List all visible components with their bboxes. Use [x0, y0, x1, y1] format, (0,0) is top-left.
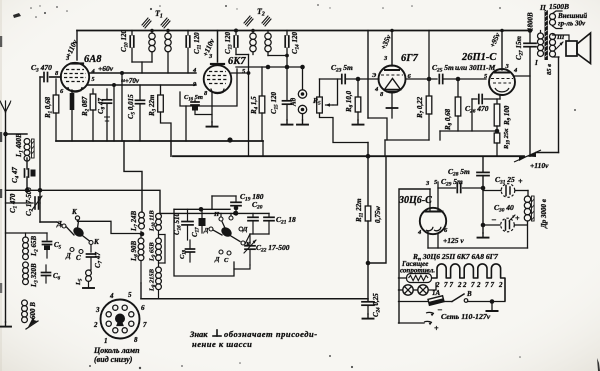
- tuning arrow: [265, 19, 271, 26]
- scan artifacts top-left: [13, 13, 21, 18]
- wire x=248 link: [248, 55, 250, 142]
- wire secondary to speaker: [553, 35, 570, 41]
- svg-text:1: 1: [104, 337, 108, 345]
- capacitor C24 0.25: [362, 301, 374, 303]
- tube 6G7: [379, 66, 406, 93]
- wire x=248 lower link: [248, 141, 250, 156]
- antenna: [5, 112, 7, 134]
- svg-text:+: +: [434, 324, 439, 333]
- potentiometer R5: [319, 79, 321, 97]
- svg-text:30Ц6-С: 30Ц6-С: [398, 195, 432, 206]
- ground jack: [302, 120, 304, 124]
- svg-text:5: 5: [128, 291, 132, 299]
- wire box right of 6K7: [180, 69, 237, 106]
- coil L8 215V: [156, 267, 162, 273]
- svg-text:обозначает присоеди-: обозначает присоеди-: [224, 329, 318, 339]
- wire PSU box left: [399, 189, 430, 323]
- 6G7 diode triangle: [385, 79, 401, 90]
- speaker: [566, 41, 577, 56]
- svg-text:+110v: +110v: [530, 161, 549, 170]
- wire mains bottom: [399, 322, 425, 324]
- wire L10 top elbow: [6, 190, 161, 213]
- svg-text:Н: Н: [213, 211, 220, 218]
- coil L7 24V: [139, 212, 145, 218]
- wire anode 5: [437, 182, 439, 211]
- switch2 contact D left: [209, 227, 213, 231]
- wire C22 to switch K: [245, 234, 250, 244]
- 26P1 grid dashes: [491, 78, 513, 80]
- wire C19 top: [212, 195, 236, 197]
- wire L7 top elbow: [124, 141, 142, 212]
- svg-text:Д: Д: [65, 252, 71, 260]
- 6G7 grid dashes: [381, 74, 403, 76]
- capacitor C5 0.015: [139, 85, 141, 100]
- wire 6G7 cathode down: [391, 93, 393, 109]
- wire R5 bottom drop: [320, 113, 369, 143]
- svg-text:1800В: 1800В: [527, 12, 535, 31]
- wire left coil column: [140, 231, 142, 238]
- tube socket diagram: [101, 300, 140, 339]
- svg-text:нение к шасси: нение к шасси: [192, 339, 252, 349]
- wire from AVC x=40 to contact D: [57, 222, 62, 225]
- wire 6K7 top feed: [217, 31, 219, 63]
- tuning arrow: [247, 19, 253, 26]
- svg-text:Др 3000 в: Др 3000 в: [540, 199, 548, 229]
- wire plate to IF2: [232, 72, 249, 74]
- svg-text:+60v: +60v: [98, 64, 114, 73]
- tube 30Ts6: [420, 208, 446, 234]
- resistor R6 10.0: [357, 79, 359, 97]
- coil IF1 primary: [151, 31, 153, 34]
- variable cap C2: [6, 202, 34, 204]
- junction rail: [227, 137, 232, 142]
- wire osc rail y=209: [174, 208, 230, 210]
- band switch 1 rotor: [72, 225, 86, 238]
- wire switch1 to coils: [78, 220, 141, 234]
- capacitor C19 180: [235, 196, 237, 201]
- wire rail y=153 right of switch: [536, 152, 559, 154]
- junction: [38, 188, 43, 193]
- coil L4 600V: [22, 300, 28, 306]
- coil L5: [86, 270, 92, 276]
- capacitor C17 trimmer: [201, 209, 203, 218]
- junction antenna node: [3, 132, 8, 137]
- svg-text:гр-ль 30v: гр-ль 30v: [558, 20, 586, 28]
- wire choke down: [527, 221, 529, 248]
- bowtie +110v switch: [519, 152, 536, 161]
- junction: [199, 207, 204, 212]
- svg-text:2: 2: [93, 321, 98, 329]
- capacitor C5 padder: [46, 233, 48, 240]
- wire rail link x=171: [170, 141, 172, 156]
- svg-text:Знак: Знак: [189, 329, 208, 339]
- wire switch to ladder: [468, 301, 505, 303]
- wire 6G7 plate feed: [391, 31, 393, 67]
- heater filament ladder: [432, 264, 506, 301]
- wire x=429 drop: [428, 31, 430, 97]
- svg-text:–: –: [491, 215, 496, 224]
- svg-text:Д: Д: [203, 227, 209, 234]
- wire IF1 plate link: [132, 61, 152, 63]
- scan specks bottom: [89, 365, 91, 367]
- svg-text:7: 7: [485, 281, 489, 289]
- secondary tap arrow: [556, 42, 563, 49]
- wire choke top stub: [527, 191, 529, 197]
- svg-text:1500В: 1500В: [549, 2, 569, 11]
- wire R7 bottom rail y=140: [385, 139, 429, 141]
- junction: [481, 223, 486, 228]
- switch2 contacts bottom: [219, 250, 223, 254]
- ground filter: [482, 233, 484, 237]
- capacitor C21 18: [268, 213, 270, 216]
- resistor R1 0.68: [55, 79, 57, 95]
- svg-text:I: I: [534, 59, 538, 67]
- junction grid R6: [356, 77, 361, 82]
- wire cathode rail y=248: [428, 247, 528, 249]
- capacitor C15 120: [286, 67, 288, 101]
- ground L5: [88, 282, 90, 288]
- choke Dr 3000V: [524, 196, 530, 202]
- wire antenna to L1: [6, 133, 28, 135]
- core arrow: [28, 317, 37, 327]
- tuning arrow: [145, 21, 151, 28]
- junction: [300, 65, 305, 70]
- wire mid rail y=141: [56, 140, 263, 142]
- coil L9 65V: [156, 238, 162, 244]
- svg-text:2: 2: [457, 281, 462, 289]
- wire right coil column: [158, 231, 160, 238]
- 6G7 plate bar: [385, 69, 399, 71]
- resistor R9 100: [496, 99, 498, 104]
- capacitor C25 5t: [406, 78, 438, 80]
- capacitor C14 120: [286, 31, 288, 36]
- switch2 contact C: [229, 216, 233, 220]
- 26P1 plate bar: [495, 72, 509, 74]
- capacitor C13 120: [235, 31, 237, 36]
- wire wiper to grid cap: [333, 79, 338, 105]
- switch contact K right: [89, 241, 93, 245]
- coil IF2 secondary: [267, 31, 269, 34]
- switch contact D left: [62, 224, 66, 228]
- transformer ext winding: [550, 14, 556, 20]
- tube 6A8: [61, 63, 89, 91]
- svg-text:26П1-С: 26П1-С: [461, 52, 497, 63]
- wire screen rail y=73: [90, 72, 197, 74]
- junction: [366, 261, 371, 266]
- wire grid stub: [50, 76, 61, 78]
- svg-text:(вид снизу): (вид снизу): [94, 355, 133, 364]
- capacitor C3 470: [40, 76, 43, 78]
- switch contact K top: [75, 216, 79, 220]
- wire rail y=131: [440, 130, 497, 132]
- transformer secondary coil: [550, 34, 556, 40]
- 6G7 cathode bar: [387, 91, 397, 93]
- svg-text:7: 7: [143, 321, 147, 329]
- wire jack leads: [302, 67, 304, 90]
- capacitor C18: [186, 248, 195, 250]
- ground mains: [491, 302, 493, 311]
- junction: [266, 65, 271, 70]
- wire C19 drop: [211, 196, 213, 209]
- capacitor C26 470: [472, 98, 477, 100]
- junction B+ top: [528, 28, 533, 33]
- jack pickup top: [298, 90, 306, 98]
- wiper R5: [326, 104, 334, 106]
- capacitor C7 47: [87, 253, 96, 255]
- switch V: [444, 301, 452, 303]
- svg-text:2: 2: [476, 281, 481, 289]
- capacitor C16 510: [187, 209, 189, 221]
- wire pin4 to B+: [514, 75, 531, 77]
- svg-text:85 в: 85 в: [546, 64, 553, 75]
- resistor R11 22t: [365, 206, 371, 221]
- wire anode 3: [429, 189, 431, 211]
- plug squiggles: [426, 312, 434, 313]
- svg-text:6: 6: [141, 304, 145, 312]
- wire 6K7 cathode: [211, 93, 213, 122]
- wire speaker return: [558, 57, 560, 153]
- capacitor C27 15t: [529, 31, 531, 43]
- wire c22 bottom link: [234, 265, 250, 269]
- wire x=186 drop: [185, 106, 187, 141]
- ground C24: [367, 314, 369, 318]
- junction grid2: [456, 77, 461, 82]
- wire L1 to C4: [26, 158, 28, 169]
- svg-text:С: С: [224, 257, 229, 264]
- resistor R3 22t: [160, 85, 162, 95]
- svg-text:+125 v: +125 v: [443, 236, 464, 245]
- wire C26 left down: [471, 99, 473, 131]
- capacitor C11 120: [187, 31, 189, 36]
- wire C20 C21 bottoms: [250, 233, 269, 235]
- svg-text:или 30П1-М: или 30П1-М: [455, 63, 496, 72]
- capacitor C23 5t: [341, 75, 343, 84]
- resistor R7 0.22: [426, 96, 432, 114]
- wire x=386 drop to C24 node: [368, 156, 386, 263]
- svg-text:4: 4: [109, 292, 114, 300]
- tube 26P1: [489, 69, 515, 95]
- 26P1 cathode arc: [495, 88, 509, 92]
- wire osc top rail: [6, 232, 48, 234]
- wire x=368 drop: [367, 143, 369, 207]
- ground R6: [357, 120, 359, 124]
- coil L2 65V: [25, 233, 27, 237]
- capacitor C10 120: [131, 31, 133, 36]
- svg-text:С: С: [76, 254, 81, 262]
- junction R10 rail: [495, 129, 500, 134]
- wire C4 to node: [26, 177, 28, 190]
- jack pickup bottom: [298, 105, 306, 113]
- wire AVC vertical x=40: [39, 77, 41, 222]
- wire antenna down-lead: [5, 134, 7, 322]
- svg-text:7: 7: [444, 281, 448, 289]
- dial lamp 2: [418, 285, 428, 295]
- coil L3 320V: [23, 262, 29, 268]
- transformer primary coil: [540, 31, 542, 34]
- switch contacts D S bottom: [70, 248, 74, 252]
- variable cap C22 17-500: [249, 234, 251, 244]
- svg-text:600 В: 600 В: [29, 302, 37, 319]
- svg-text:+: +: [515, 214, 520, 223]
- resistor R4 1.5: [261, 67, 263, 96]
- anode bars: [426, 211, 434, 213]
- wire osc link y=213: [160, 212, 269, 214]
- band switch 2 rotor: [220, 225, 234, 238]
- tuning arrow: [164, 21, 170, 28]
- switch2 contact D right: [239, 227, 243, 231]
- junction: [140, 232, 145, 237]
- capacitor C31 25 electrolytic: [483, 190, 501, 192]
- fuse: [399, 301, 429, 303]
- svg-text:Сеть 110-127v: Сеть 110-127v: [441, 312, 491, 321]
- svg-text:7: 7: [471, 281, 475, 289]
- wire ballast left: [399, 277, 407, 279]
- svg-text:Д: Д: [214, 256, 220, 263]
- wire cathode legs: [427, 232, 429, 249]
- resistor R2 0.87: [92, 89, 94, 94]
- junction: [481, 186, 486, 191]
- wire coil bottoms: [140, 283, 142, 299]
- svg-text:В: В: [466, 290, 472, 298]
- svg-text:7: 7: [450, 281, 454, 289]
- resistor R8 0.68: [457, 79, 459, 97]
- capacitor C28 5t: [477, 171, 489, 173]
- capacitor C6: [42, 272, 51, 274]
- svg-text:+: +: [518, 177, 523, 186]
- svg-text:3: 3: [95, 306, 100, 314]
- svg-text:6Г7: 6Г7: [401, 53, 419, 64]
- dial lamp 1: [403, 285, 413, 295]
- capacitor C16 trimmer: [194, 100, 196, 102]
- wire grid line y=79: [320, 78, 342, 80]
- svg-text:2: 2: [462, 281, 467, 289]
- switch2 contact K: [241, 241, 245, 245]
- svg-text:Д: Д: [242, 226, 248, 233]
- capacitor C29 5t: [438, 187, 456, 189]
- coil IF1 secondary: [167, 31, 169, 34]
- svg-text:2: 2: [498, 281, 503, 289]
- coil L10 11V: [156, 213, 162, 219]
- wire coil taps: [159, 234, 166, 236]
- wire audio rail y=299: [141, 298, 368, 300]
- cathode hooks: [426, 227, 433, 231]
- svg-text:1А: 1А: [432, 289, 441, 297]
- switch2 contact N: [219, 217, 223, 221]
- capacitor C20: [252, 213, 254, 216]
- svg-text:8: 8: [134, 336, 138, 344]
- wire x=263 link: [262, 141, 264, 156]
- coil L6 90V: [138, 238, 144, 244]
- tube 6K7: [204, 65, 232, 93]
- wire AVC rail y=85: [88, 84, 196, 86]
- svg-text:≈+70v: ≈+70v: [121, 77, 140, 85]
- ground antenna lead: [5, 322, 7, 326]
- wire x=114 AVC drop: [113, 85, 115, 141]
- wire detector rail y=67: [236, 66, 303, 68]
- svg-text:7: 7: [491, 281, 495, 289]
- wire screen drop x=368: [367, 31, 369, 119]
- transformer core: [545, 10, 548, 60]
- wire contact к to C7: [90, 245, 92, 253]
- wire switch box: [174, 209, 234, 276]
- coil IF2 primary: [252, 31, 254, 34]
- junction: [490, 299, 495, 304]
- svg-text:0,75w: 0,75w: [374, 206, 382, 223]
- coil L1 400V: [24, 139, 30, 145]
- wire x=122 screen drop: [121, 73, 123, 141]
- wire top B+ rail y=30: [77, 30, 531, 32]
- junction: [25, 188, 30, 193]
- resistor R10 25k: [496, 126, 498, 133]
- svg-text:Цоколь ламп: Цоколь ламп: [93, 346, 140, 355]
- resistor cathode dark: [71, 90, 73, 93]
- junction: [234, 206, 239, 211]
- wire lamps: [399, 289, 403, 291]
- capacitor C8 47: [106, 89, 108, 100]
- capacitor C4 47 trimmer: [24, 169, 26, 177]
- ground C15: [286, 120, 288, 124]
- svg-text:6К7: 6К7: [228, 56, 246, 67]
- wire plate feed 26P1: [501, 31, 503, 71]
- wire cathode box: [368, 118, 387, 140]
- capacitor C30 40 electrolytic: [483, 224, 500, 226]
- wire long rail y=156: [173, 155, 524, 157]
- ballast resistor box: [407, 274, 432, 283]
- wire 26P1 cathode: [499, 95, 501, 99]
- wire x=483 filter drop: [482, 156, 484, 172]
- svg-text:5: 5: [92, 77, 95, 83]
- svg-text:Ад: Ад: [290, 97, 298, 107]
- ground 6K7 cathode: [211, 122, 213, 126]
